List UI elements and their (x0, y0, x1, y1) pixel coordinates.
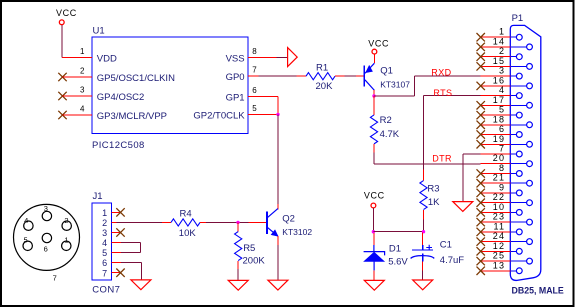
svg-text:GP4/OSC2: GP4/OSC2 (97, 92, 145, 103)
no-connect X on P1 pin 13 (477, 267, 485, 275)
wire C1 to ground (422, 271, 424, 280)
P1 pin 25 circle (527, 258, 533, 264)
P1 pin 4 internal link (510, 95, 516, 97)
Q1 collector stub (373, 90, 375, 96)
no-connect X on P1 pin 16 (477, 82, 485, 90)
svg-text:VCC: VCC (368, 38, 389, 48)
svg-text:R2: R2 (380, 115, 392, 126)
P1 pin 6 internal link (510, 134, 516, 136)
connector P1 DB25 body outline (510, 25, 541, 280)
wire P1 pin7 ground vertical (462, 154, 464, 201)
svg-text:12: 12 (493, 241, 505, 251)
svg-text:C1: C1 (440, 240, 452, 251)
wire RXD horizontal to P1 pin3 (415, 75, 481, 77)
svg-text:GP1: GP1 (226, 93, 245, 104)
no-connect X on P1 pin 6 (477, 130, 485, 138)
Q2 collector stub (277, 204, 279, 210)
U1 pin 2 stub (63, 76, 93, 78)
P1 pin 17 internal link (510, 104, 526, 106)
svg-text:8: 8 (499, 163, 505, 173)
wire pin7 to R1 (259, 75, 297, 77)
P1 pin 19 stub (481, 143, 511, 145)
svg-text:RTS: RTS (433, 88, 452, 98)
junction node D1 top (372, 230, 375, 233)
VCC power circle (Q1) (372, 49, 377, 54)
svg-text:13: 13 (493, 260, 505, 270)
J1 pin3 stub (111, 232, 120, 234)
C1 bottom stub (422, 262, 424, 271)
svg-text:D1: D1 (389, 243, 401, 254)
U1 pin 7 stub (248, 75, 259, 77)
svg-text:21: 21 (493, 173, 505, 183)
wire RXD vertical (414, 76, 416, 96)
svg-text:R4: R4 (180, 209, 192, 220)
P1 pin 2 circle (516, 54, 522, 60)
no-connect X on P1 pin 17 (477, 101, 485, 109)
no-connect X on P1 pin 25 (477, 257, 485, 265)
C1 top stub (422, 233, 424, 245)
svg-text:7: 7 (499, 144, 505, 154)
no-connect X on J1 pin7 (116, 269, 124, 277)
no-connect X on J1 pin1 (116, 208, 124, 216)
J1 pin2 stub (111, 221, 116, 223)
P1 pin 6 stub (481, 134, 511, 136)
svg-text:3: 3 (499, 66, 505, 76)
P1 pin 15 stub (481, 65, 511, 67)
DIN pin circle 2 (62, 221, 71, 230)
DIN pin circle 6 (42, 233, 51, 242)
wire J1 pin6 down to ground (140, 263, 142, 280)
Q2 emitter diagonal (268, 228, 278, 237)
P1 pin 11 stub (481, 231, 511, 233)
P1 pin 22 internal link (510, 202, 526, 204)
P1 pin 18 internal link (510, 124, 526, 126)
no-connect X on J1 pin3 (116, 228, 124, 236)
P1 pin 8 stub (481, 173, 511, 175)
P1 pin 15 internal link (510, 65, 526, 67)
R1 right stub (335, 75, 345, 77)
P1 pin 2 internal link (510, 56, 516, 58)
P1 pin 17 circle (527, 102, 533, 108)
P1 pin 20 internal link (510, 163, 526, 165)
svg-text:16: 16 (493, 75, 505, 85)
svg-text:11: 11 (493, 221, 505, 231)
ground symbol (C1) (413, 280, 433, 290)
P1 pin 5 circle (516, 112, 522, 118)
P1 pin 9 stub (481, 192, 511, 194)
no-connect X on P1 pin 5 (477, 111, 485, 119)
svg-text:3: 3 (44, 204, 48, 213)
wire down to Q2 collector (277, 114, 279, 203)
Q1 base stub (356, 75, 363, 77)
wire Q1 collector to RXD elbow (374, 95, 415, 97)
C1 plus sign (426, 245, 432, 251)
wire RTS vertical down to R3 (423, 96, 425, 170)
D1 lead through bar (373, 245, 375, 252)
svg-text:DB25, MALE: DB25, MALE (512, 285, 564, 295)
no-connect X on P1 pin 10 (477, 208, 485, 216)
wire R2 to DTR corner (373, 152, 375, 164)
R4 right stub (200, 221, 206, 223)
wire J1 pin6 right (121, 262, 141, 264)
junction node C1 top (422, 230, 425, 233)
ground symbol (R5) (228, 280, 248, 290)
C1 curved bottom plate (411, 256, 435, 259)
no-connect X on P1 pin 18 (477, 121, 485, 129)
P1 pin 25 internal link (510, 260, 526, 262)
C1 bottom lead blue (422, 254, 424, 262)
resistor R3 zigzag 1K (420, 181, 427, 210)
svg-text:22: 22 (493, 192, 505, 202)
P1 pin 12 internal link (510, 250, 516, 252)
P1 pin 10 stub (481, 211, 511, 213)
wire D1 node to C1 node (373, 231, 423, 233)
P1 pin 4 stub (481, 95, 511, 97)
P1 pin 13 stub (481, 270, 511, 272)
port arrow symbol on VSS (288, 48, 298, 67)
svg-text:17: 17 (493, 95, 505, 105)
svg-text:GP0: GP0 (226, 72, 245, 83)
wire pin6 down to pin5 junction (277, 97, 279, 115)
J1 pin4 stub (111, 242, 121, 244)
no-connect X on U1 pin 4 (58, 111, 66, 119)
svg-text:6: 6 (252, 86, 257, 95)
P1 pin 1 circle (516, 34, 522, 40)
svg-text:PIC12C508: PIC12C508 (92, 140, 145, 151)
U1 pin 5 stub (248, 113, 278, 115)
svg-text:R3: R3 (427, 184, 439, 195)
P1 pin 3 internal link (510, 75, 516, 77)
wire P1 pin7 to ground elbow (463, 153, 481, 155)
capacitor C1 top plate (412, 249, 433, 251)
wire VCC to pin1 vertical (61, 25, 63, 58)
svg-text:4: 4 (24, 216, 28, 225)
connector J1 body (92, 203, 111, 280)
P1 pin 7 circle (516, 151, 522, 157)
R1 left stub (297, 75, 307, 77)
P1 pin 1 internal link (510, 36, 516, 38)
transistor Q2 base bar (266, 211, 268, 234)
Q2 NPN emitter arrow (271, 230, 278, 236)
svg-text:9: 9 (499, 182, 505, 192)
no-connect X on P1 pin 9 (477, 189, 485, 197)
P1 pin 10 circle (516, 210, 522, 216)
P1 pin 24 circle (527, 239, 533, 245)
wire J1 pin4 to bracket (121, 242, 141, 244)
wire R5 to ground (237, 269, 239, 280)
svg-text:P1: P1 (512, 13, 524, 24)
P1 pin 5 stub (481, 114, 511, 116)
Q1 collector diagonal (365, 80, 375, 91)
P1 pin 21 stub (481, 182, 511, 184)
wire pin8 to port symbol (277, 57, 288, 59)
ground symbol (Q2) (268, 280, 288, 290)
wire J1 pin2 to R4 (117, 221, 163, 223)
svg-text:20: 20 (493, 153, 505, 163)
P1 pin 23 stub (481, 221, 511, 223)
Q1 emitter stub to VCC (373, 55, 375, 64)
P1 pin 16 circle (527, 83, 533, 89)
svg-text:24: 24 (493, 231, 505, 241)
svg-text:7: 7 (53, 273, 57, 282)
P1 pin 20 stub (481, 163, 511, 165)
P1 pin 23 internal link (510, 221, 526, 223)
C1 top lead blue (422, 245, 424, 250)
no-connect X on P1 pin 19 (477, 140, 485, 148)
wire R3 to C1 node (423, 220, 425, 232)
P1 pin 7 internal link (510, 153, 516, 155)
J1 pin1 stub (111, 211, 120, 213)
DIN pin circle 4 (24, 221, 33, 230)
P1 pin 11 internal link (510, 231, 516, 233)
svg-text:2: 2 (499, 46, 505, 56)
P1 pin 12 circle (516, 248, 522, 254)
svg-text:VCC: VCC (364, 190, 385, 200)
P1 pin 1 stub (481, 36, 511, 38)
svg-text:2: 2 (80, 66, 85, 75)
no-connect X on U1 pin 3 (58, 92, 66, 100)
R2 bottom stub (373, 144, 375, 152)
D1 bottom stub to ground (373, 270, 375, 280)
svg-text:R5: R5 (243, 243, 255, 254)
P1 pin 6 circle (516, 132, 522, 138)
P1 pin 24 stub (481, 241, 511, 243)
VCC power circle (top left) (59, 20, 64, 25)
U1 pin 6 stub wire (248, 96, 278, 98)
P1 pin 14 circle (527, 44, 533, 50)
U1 pin 8 stub (248, 57, 277, 59)
no-connect X on P1 pin 23 (477, 218, 485, 226)
P1 pin 7 stub (481, 153, 511, 155)
DIN pin circle 5 (23, 241, 32, 250)
svg-text:15: 15 (493, 56, 505, 66)
svg-text:18: 18 (493, 114, 505, 124)
Q2 emitter stub (277, 236, 279, 245)
no-connect X on P1 pin 22 (477, 199, 485, 207)
svg-text:23: 23 (493, 212, 505, 222)
P1 pin 10 internal link (510, 211, 516, 213)
resistor R5 zigzag 200K (235, 232, 242, 261)
P1 pin 19 internal link (510, 143, 526, 145)
R3 top stub (423, 169, 425, 180)
resistor R4 zigzag 10K (171, 219, 200, 226)
P1 pin 23 circle (527, 219, 533, 225)
P1 pin 14 internal link (510, 46, 526, 48)
P1 pin 22 stub (481, 202, 511, 204)
U1 pin 3 stub (63, 95, 93, 97)
svg-text:1: 1 (102, 208, 107, 218)
R4 left stub (162, 221, 171, 223)
svg-text:GP3/MCLR/VPP: GP3/MCLR/VPP (97, 111, 167, 122)
svg-text:4: 4 (80, 104, 85, 113)
svg-text:J1: J1 (93, 191, 103, 202)
svg-text:4.7uF: 4.7uF (440, 255, 464, 266)
svg-text:25: 25 (493, 251, 505, 261)
svg-text:5: 5 (499, 105, 505, 115)
wire R1 to Q1 (345, 75, 357, 77)
svg-text:3: 3 (102, 228, 107, 238)
svg-text:Q2: Q2 (282, 213, 295, 224)
P1 pin 11 circle (516, 229, 522, 235)
no-connect X on P1 pin 21 (477, 179, 485, 187)
svg-text:10K: 10K (179, 228, 197, 239)
junction node Q1 collector (372, 94, 375, 97)
VCC power circle (bottom) (371, 203, 376, 208)
svg-text:6: 6 (44, 244, 48, 253)
wire bracket vertical pin4-pin5 (140, 243, 142, 253)
svg-text:20K: 20K (316, 81, 334, 92)
D1 bottom lead (373, 262, 375, 271)
svg-text:3: 3 (80, 85, 85, 94)
P1 pin 13 circle (516, 268, 522, 274)
DIN pin circle 1 (62, 241, 71, 250)
no-connect X on P1 pin 8 (477, 169, 485, 177)
no-connect X on P1 pin 14 (477, 43, 485, 51)
svg-text:6: 6 (102, 258, 107, 268)
svg-text:2: 2 (102, 218, 107, 228)
P1 pin 13 internal link (510, 270, 516, 272)
IC U1 PIC12C508 body (92, 37, 248, 134)
wire DTR horizontal to P1 pin20 (374, 163, 481, 165)
P1 pin 4 circle (516, 93, 522, 99)
P1 pin 12 stub (481, 250, 511, 252)
P1 pin 20 circle (527, 161, 533, 167)
resistor R2 zigzag 4.7K (370, 115, 377, 144)
svg-text:19: 19 (493, 134, 505, 144)
junction node R5 top (236, 221, 239, 224)
no-connect X on P1 pin 11 (477, 228, 485, 236)
svg-text:200K: 200K (243, 255, 266, 266)
P1 pin 17 stub (481, 104, 511, 106)
no-connect X on P1 pin 15 (477, 62, 485, 70)
wire J1 pin5 to bracket (121, 252, 141, 254)
svg-text:CON7: CON7 (92, 285, 120, 296)
R5 bottom stub (237, 261, 239, 269)
P1 pin 21 circle (527, 180, 533, 186)
svg-text:5: 5 (24, 236, 28, 245)
svg-text:1: 1 (64, 236, 68, 245)
P1 pin 24 internal link (510, 241, 526, 243)
no-connect X on P1 pin 1 (477, 33, 485, 41)
svg-text:1: 1 (499, 27, 505, 37)
resistor R1 zigzag 20K (306, 73, 335, 80)
transistor Q1 base bar (363, 66, 365, 87)
R2 top stub (373, 96, 375, 115)
svg-text:1: 1 (80, 47, 85, 56)
no-connect X on P1 pin 2 (477, 53, 485, 61)
P1 pin 16 internal link (510, 85, 526, 87)
J1 pin5 stub (111, 252, 121, 254)
svg-text:2: 2 (64, 216, 68, 225)
Q2 collector diagonal (268, 209, 278, 218)
svg-text:4.7K: 4.7K (380, 129, 400, 140)
svg-text:7: 7 (252, 66, 257, 75)
svg-text:5.6V: 5.6V (388, 256, 408, 267)
svg-text:4: 4 (499, 85, 505, 95)
P1 pin 9 internal link (510, 192, 516, 194)
svg-text:VSS: VSS (226, 54, 245, 65)
diode D1 zener cathode bar (364, 252, 385, 256)
wire R4 to Q2 base (206, 221, 249, 223)
P1 pin 2 stub (481, 56, 511, 58)
P1 pin 16 stub (481, 85, 511, 87)
P1 pin 25 stub (481, 260, 511, 262)
svg-text:GP2/T0CLK: GP2/T0CLK (193, 110, 245, 121)
P1 pin 3 circle (516, 73, 522, 79)
P1 pin 21 internal link (510, 182, 526, 184)
svg-text:1K: 1K (428, 197, 440, 208)
Q2 base stub (249, 221, 267, 223)
svg-text:R1: R1 (316, 63, 328, 74)
ground symbol (D1) (364, 280, 384, 290)
R3 bottom stub (423, 210, 425, 219)
ground symbol (P1 pin7) (453, 202, 473, 212)
P1 pin 19 circle (527, 141, 533, 147)
pin 1 stub wire (62, 57, 92, 59)
R5 top stub (237, 222, 239, 231)
no-connect X on U1 pin 2 (58, 73, 66, 81)
P1 pin 22 circle (527, 200, 533, 206)
svg-text:RXD: RXD (431, 67, 451, 77)
P1 pin 8 internal link (510, 173, 516, 175)
svg-text:GP5/OSC1/CLKIN: GP5/OSC1/CLKIN (97, 73, 175, 84)
junction node pin5/pin6 (276, 113, 279, 116)
diode D1 body triangle (364, 252, 384, 261)
Q1 PNP emitter arrow (366, 66, 373, 73)
P1 pin 3 stub (481, 75, 511, 77)
svg-text:VDD: VDD (97, 54, 117, 65)
J1 pin6 stub (111, 262, 121, 264)
svg-text:DTR: DTR (432, 153, 452, 163)
no-connect X on P1 pin 24 (477, 237, 485, 245)
svg-text:VCC: VCC (56, 8, 77, 18)
svg-text:5: 5 (102, 248, 107, 258)
wire RTS horizontal from P1 pin4 (424, 95, 481, 97)
J1 pin7 stub (111, 272, 120, 274)
svg-text:8: 8 (252, 47, 257, 56)
svg-text:U1: U1 (93, 26, 105, 37)
svg-text:7: 7 (102, 268, 107, 278)
svg-text:14: 14 (493, 36, 505, 46)
svg-text:Q1: Q1 (380, 65, 393, 76)
P1 pin 14 stub (481, 46, 511, 48)
wire Q2 emitter to ground (277, 245, 279, 280)
D1 top stub (373, 233, 375, 245)
P1 pin 18 stub (481, 124, 511, 126)
DIN-7 connector outer circle (14, 204, 80, 270)
svg-text:5: 5 (252, 104, 257, 113)
no-connect X on P1 pin 12 (477, 247, 485, 255)
svg-text:6: 6 (499, 124, 505, 134)
P1 pin 18 circle (527, 122, 533, 128)
Q1 emitter diagonal (365, 63, 375, 73)
svg-text:10: 10 (493, 202, 505, 212)
DIN pin circle 3 (42, 211, 51, 220)
P1 pin 15 circle (527, 64, 533, 70)
P1 pin 9 circle (516, 190, 522, 196)
svg-text:KT3107: KT3107 (380, 80, 410, 90)
wire VCC down to D1 node (372, 208, 374, 232)
U1 pin 4 stub (63, 114, 93, 116)
svg-text:4: 4 (102, 238, 107, 248)
P1 pin 8 circle (516, 171, 522, 177)
ground symbol (J1 pin6) (131, 280, 151, 290)
P1 pin 5 internal link (510, 114, 516, 116)
svg-text:KT3102: KT3102 (282, 227, 312, 237)
